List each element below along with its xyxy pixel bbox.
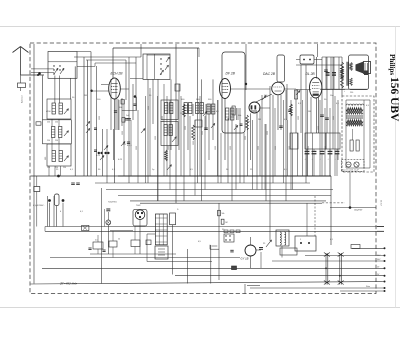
svg-text:250: 250 xyxy=(47,122,50,124)
svg-text:250: 250 xyxy=(47,140,50,142)
svg-text:2M: 2M xyxy=(84,95,87,97)
svg-text:5000: 5000 xyxy=(245,136,247,140)
svg-text:2M: 2M xyxy=(258,119,261,121)
svg-text:ECH 2B: ECH 2B xyxy=(111,72,124,76)
svg-text:5000: 5000 xyxy=(333,116,335,120)
svg-text:Philips: Philips xyxy=(388,54,396,75)
svg-text:5000: 5000 xyxy=(318,126,320,130)
svg-text:5000: 5000 xyxy=(298,116,300,120)
svg-text:DL 2B: DL 2B xyxy=(306,72,316,76)
svg-text:5000: 5000 xyxy=(122,131,124,135)
svg-text:7042/7B1: 7042/7B1 xyxy=(108,202,117,204)
svg-text:5000: 5000 xyxy=(162,116,164,120)
svg-text:50: 50 xyxy=(118,239,120,241)
svg-text:250: 250 xyxy=(47,167,50,169)
svg-text:250: 250 xyxy=(350,92,353,94)
svg-text:5000: 5000 xyxy=(193,141,195,145)
svg-text:5000: 5000 xyxy=(267,131,269,135)
svg-text:Tous les cond. en µF: Tous les cond. en µF xyxy=(342,170,360,172)
svg-text:250: 250 xyxy=(55,122,58,124)
svg-text:50k: 50k xyxy=(119,107,122,109)
svg-text:5000: 5000 xyxy=(155,136,157,140)
svg-text:5000: 5000 xyxy=(230,146,232,150)
svg-text:DF 2B: DF 2B xyxy=(226,72,236,76)
svg-text:156 UBV: 156 UBV xyxy=(388,77,400,122)
svg-text:5000: 5000 xyxy=(136,146,138,150)
svg-text:GY 1B: GY 1B xyxy=(241,257,249,261)
svg-text:24.517: 24.517 xyxy=(380,200,382,207)
svg-text:Rote: Rote xyxy=(366,285,370,288)
svg-text:ZF=452 kHz: ZF=452 kHz xyxy=(59,282,77,286)
svg-text:0,1µF/250V~: 0,1µF/250V~ xyxy=(33,205,45,207)
svg-text:5000: 5000 xyxy=(275,146,277,150)
svg-text:6,8: 6,8 xyxy=(123,144,126,146)
svg-text:5000: 5000 xyxy=(308,146,310,150)
svg-text:250: 250 xyxy=(63,167,66,169)
svg-text:10n: 10n xyxy=(330,95,333,97)
svg-text:Antenne: Antenne xyxy=(21,94,24,103)
svg-text:50k: 50k xyxy=(222,213,225,215)
svg-text:5000: 5000 xyxy=(99,116,101,120)
svg-text:5000: 5000 xyxy=(185,126,187,130)
svg-text:500: 500 xyxy=(45,157,47,160)
svg-text:250: 250 xyxy=(55,140,58,142)
svg-text:DAC 2B: DAC 2B xyxy=(263,72,276,76)
svg-text:50k: 50k xyxy=(238,115,241,117)
svg-text:5000: 5000 xyxy=(215,146,217,150)
svg-text:100µF/6V: 100µF/6V xyxy=(354,210,363,212)
svg-text:0,5: 0,5 xyxy=(95,240,98,242)
svg-text:5000: 5000 xyxy=(258,146,260,150)
svg-text:1M: 1M xyxy=(308,111,311,113)
svg-text:5000: 5000 xyxy=(168,146,170,150)
svg-text:5000: 5000 xyxy=(202,131,204,135)
svg-text:5000: 5000 xyxy=(148,106,150,110)
